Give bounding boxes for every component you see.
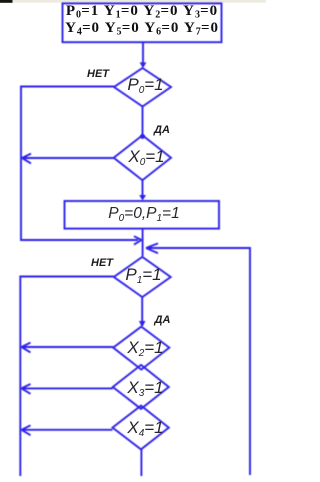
wire X2 left arrow [22,346,114,348]
decision X0 text [118,148,175,165]
wire P1 to X2 [141,297,143,325]
arrowhead into X2 [139,321,146,327]
decision P0 text [117,76,174,93]
decision X3 text [117,379,174,396]
decision P0 [114,68,171,107]
junction dot at X0 top [140,134,145,139]
wire X3 left arrow [22,387,113,389]
arrowhead left X4 row [22,425,31,435]
top window edge strip [0,0,266,3]
wire R1 to P0 [142,42,144,63]
decision P1 [114,257,171,297]
init block text [63,3,221,38]
label DA 2 [155,315,171,326]
process block R2 text [64,205,224,222]
process block R2 [65,201,220,229]
label NET 2 [91,258,113,269]
arrowhead right at junction above P1 [134,236,142,244]
decision X4 [113,406,169,450]
decision X2 [113,327,169,370]
wire right return rail from junction [147,248,251,475]
wire P0 NO loop left and down to junction [21,87,138,241]
arrowhead left X2 row [22,343,31,353]
decision P1 text [115,266,172,283]
wire P0 to X0 [142,107,144,136]
wire P1 NO loop left and down left rail [20,277,114,477]
wire X4 left arrow [22,429,113,431]
wire X0 left arrow to left rail [22,157,114,159]
arrowhead into P0 [140,62,147,68]
wire X0 to R2 [142,180,144,197]
decision X3 [113,365,169,409]
decision X0 [114,135,171,180]
init block R1 [63,3,222,42]
top-left black bar [0,0,13,3]
decision X4 text [117,419,174,436]
decision X2 text [117,339,174,356]
wire X4 down to crop edge [140,449,142,476]
arrowhead left at junction above P1 [146,243,158,253]
arrowhead left X3 row [22,384,31,394]
label NET 1 [87,69,109,80]
label DA 1 [154,125,170,136]
wire R2 to P1 [142,229,144,256]
arrowhead into R2 [139,195,146,201]
arrowhead left X0 row [22,154,31,164]
